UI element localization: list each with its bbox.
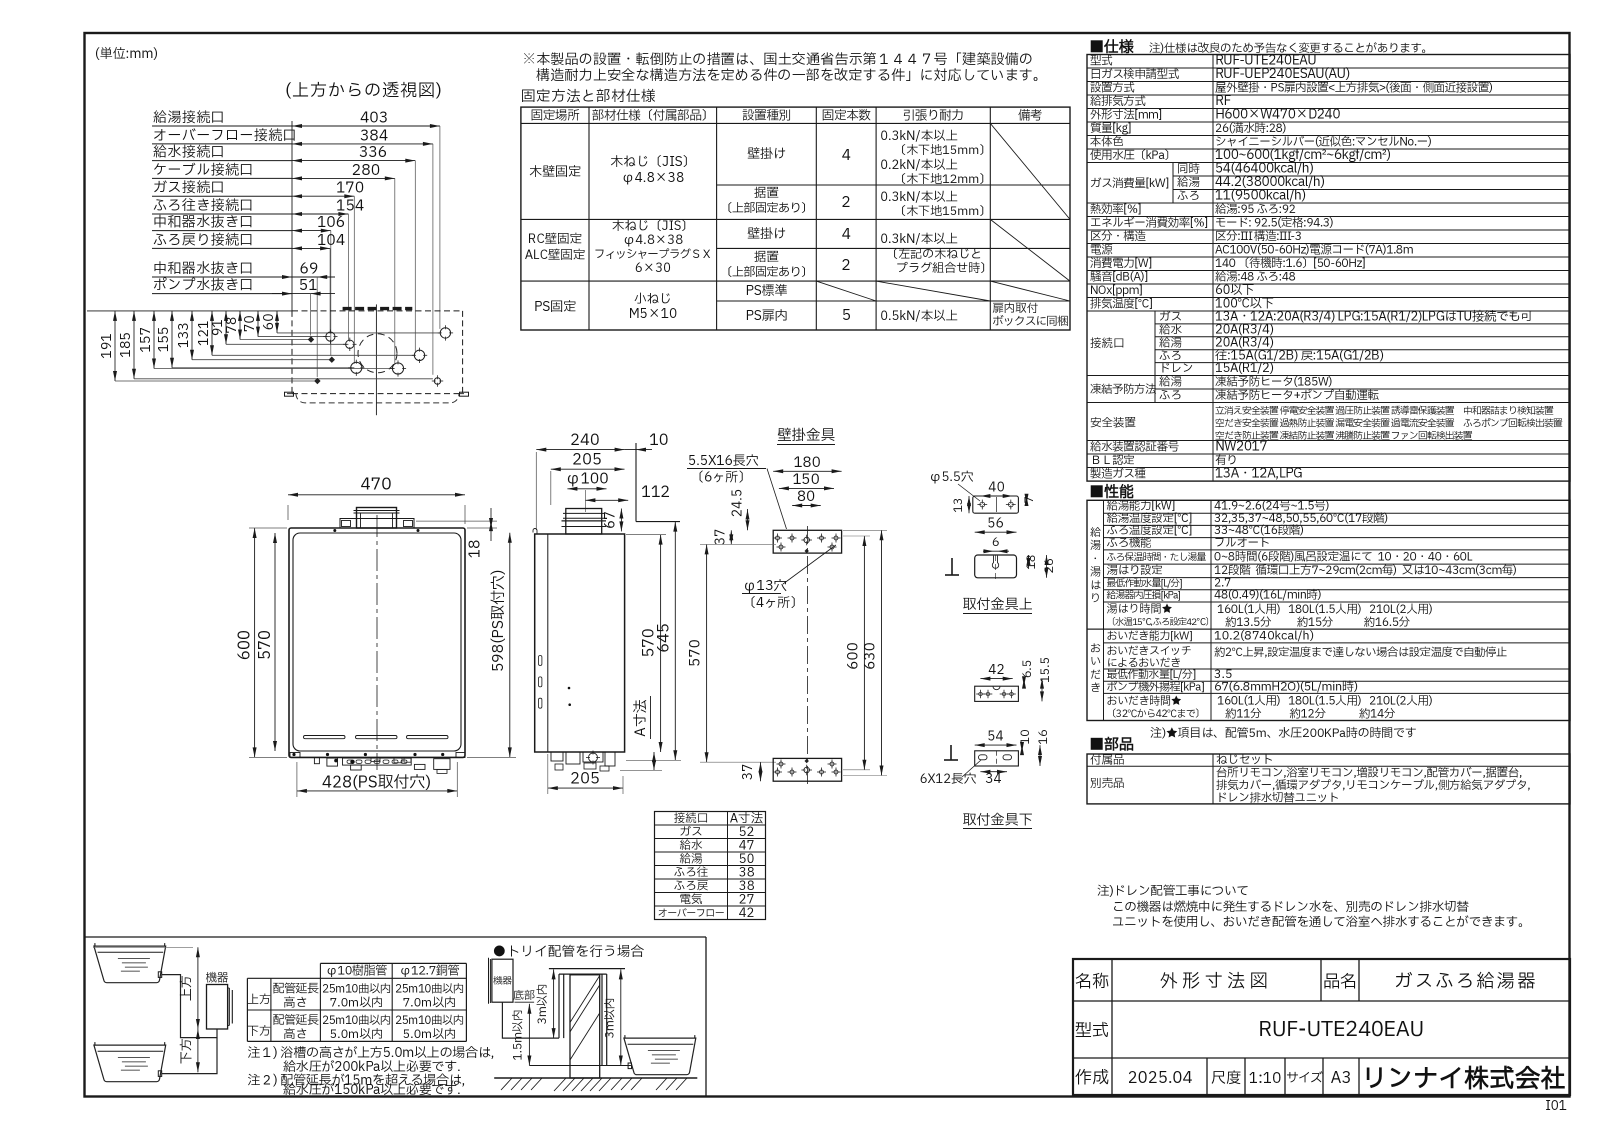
connection label ケーブル接続口 / dim 280 xyxy=(152,159,395,365)
svg-text:15.5: 15.5 xyxy=(1037,657,1055,683)
side view hanger hook xyxy=(533,529,537,535)
svg-text:PS固定: PS固定 xyxy=(534,297,576,317)
mini unit 機器 xyxy=(206,971,233,1030)
bracket 630 dim right xyxy=(843,530,887,775)
svg-text:〔上部固定あり〕: 〔上部固定あり〕 xyxy=(720,264,812,282)
svg-text:壁掛け: 壁掛け xyxy=(747,144,786,164)
svg-text:約11分 約12分: 約11分 約12分 約14分 xyxy=(1225,707,1396,724)
svg-text:37: 37 xyxy=(711,529,731,545)
performance table xyxy=(1087,499,1570,724)
svg-text:φ12.7銅管: φ12.7銅管 xyxy=(399,963,459,981)
front curved edge dashed outline xyxy=(287,394,467,403)
svg-text:112: 112 xyxy=(641,481,670,504)
dim 18 right of top bracket xyxy=(416,508,497,558)
connection label 中和器水抜き口 / dim 69 xyxy=(152,258,335,378)
bracket-lower plate1 xyxy=(975,686,1019,701)
svg-text:底部: 底部 xyxy=(513,987,535,1004)
bracket bottom 37 dim xyxy=(738,762,763,781)
bracket 80 dim xyxy=(792,487,821,508)
bracket-upper plate xyxy=(975,555,1017,580)
title block row1 xyxy=(1075,968,1538,995)
svg-text:取付金具上: 取付金具上 xyxy=(963,595,1033,616)
svg-text:設置種別: 設置種別 xyxy=(742,106,791,125)
toriy bathtub xyxy=(624,1035,696,1075)
bathtub upper xyxy=(94,943,166,983)
svg-text:A寸法: A寸法 xyxy=(631,699,652,736)
svg-text:サイズ: サイズ xyxy=(1286,1068,1323,1088)
svg-text:〔4ヶ所〕: 〔4ヶ所〕 xyxy=(743,593,803,613)
side view bottom 205 dim xyxy=(548,754,623,794)
svg-text:φ100: φ100 xyxy=(565,468,608,491)
side view 645 dim xyxy=(626,522,681,761)
connection label ふろ戻り接続口 / dim 104 xyxy=(152,229,345,333)
wall bracket thick dashed line xyxy=(343,307,413,310)
svg-text:〔木下地12mm〕: 〔木下地12mm〕 xyxy=(894,171,991,189)
ground line xyxy=(494,1077,697,1079)
svg-text:(単位:mm): (単位:mm) xyxy=(95,44,158,64)
svg-text:37: 37 xyxy=(738,764,758,780)
upper small plate 13 dim xyxy=(950,496,971,513)
side view flue xyxy=(566,509,602,535)
bottom fittings cluster xyxy=(290,753,465,774)
dim 598 PS mounting holes right xyxy=(467,533,516,758)
wall with hatching xyxy=(570,975,600,1078)
fixation table diagonal strikethroughs xyxy=(816,123,1070,301)
upper small plate 7 dim xyxy=(1021,494,1039,506)
svg-text:〔32℃から42℃まで〕: 〔32℃から42℃まで〕 xyxy=(1107,707,1205,722)
svg-text:155: 155 xyxy=(154,327,174,353)
fixation table grid xyxy=(521,107,1070,330)
phi13 hole label xyxy=(742,545,836,613)
svg-text:56: 56 xyxy=(987,514,1003,534)
svg-text:570: 570 xyxy=(686,639,707,666)
bracket-lower 15.5 dim xyxy=(1037,657,1055,701)
connection port symbols on top view xyxy=(326,332,335,341)
svg-text:品名: 品名 xyxy=(1323,970,1357,995)
parts table xyxy=(1087,752,1570,807)
svg-text:6X12長穴: 6X12長穴 xyxy=(920,770,977,789)
A-dimension table xyxy=(655,810,766,924)
vertical dim 133 with leader xyxy=(174,311,331,360)
vertical dim 155 with leader xyxy=(154,311,354,368)
svg-text:PS標準: PS標準 xyxy=(745,281,787,301)
svg-text:5.0m以内: 5.0m以内 xyxy=(403,1026,457,1044)
svg-text:133: 133 xyxy=(174,323,194,349)
svg-text:PS扉内: PS扉内 xyxy=(745,306,787,326)
svg-text:ALC壁固定: ALC壁固定 xyxy=(525,246,586,265)
svg-text:φ5.5穴: φ5.5穴 xyxy=(929,468,974,487)
svg-text:2: 2 xyxy=(841,191,850,214)
svg-text:(上方からの透視図): (上方からの透視図) xyxy=(285,79,443,104)
upper small plate 40 dim xyxy=(980,478,1012,499)
label phi5.5 hole xyxy=(929,468,980,501)
bracket top 37 dim xyxy=(711,529,734,545)
svg-text:16: 16 xyxy=(1035,729,1053,744)
svg-text:5.0m以内: 5.0m以内 xyxy=(330,1026,384,1044)
title block row3 xyxy=(1075,1058,1566,1098)
svg-text:80: 80 xyxy=(797,487,815,508)
svg-text:78: 78 xyxy=(222,317,242,334)
svg-text:湯はり時間★: 湯はり時間★ xyxy=(1107,601,1173,618)
svg-text:104: 104 xyxy=(317,229,345,252)
svg-text:φ10樹脂管: φ10樹脂管 xyxy=(326,963,388,981)
spec section title xyxy=(1089,36,1433,59)
svg-text:下方: 下方 xyxy=(247,1023,271,1041)
svg-text:下方: 下方 xyxy=(177,1038,197,1064)
svg-text:〔木下地15mm〕: 〔木下地15mm〕 xyxy=(894,203,991,221)
svg-text:645: 645 xyxy=(653,623,676,653)
svg-text:木壁固定: 木壁固定 xyxy=(529,162,581,182)
label 取付金具下 xyxy=(963,811,1033,832)
svg-text:上方: 上方 xyxy=(177,975,197,1001)
svg-text:付属品: 付属品 xyxy=(1090,752,1125,769)
center line vertical xyxy=(375,304,377,415)
svg-text:凍結予防方法: 凍結予防方法 xyxy=(1090,382,1157,399)
bracket-upper 6 dim xyxy=(983,534,1009,553)
svg-text:注)★項目は、配管5m、水圧200KPa時の時間です: 注)★項目は、配管5m、水圧200KPa時の時間です xyxy=(1150,725,1417,743)
vertical dim 60 with leader xyxy=(259,311,440,333)
svg-text:13A・12A,LPG: 13A・12A,LPG xyxy=(1215,464,1302,484)
svg-text:185: 185 xyxy=(116,332,136,358)
svg-text:1.5m以内: 1.5m以内 xyxy=(511,1009,528,1060)
svg-text:7.0m以内: 7.0m以内 xyxy=(330,995,384,1013)
vertical dim 78 with leader xyxy=(222,311,310,340)
fixation table header xyxy=(531,106,1043,125)
svg-text:ふろポンプ回転検出装置: ふろポンプ回転検出装置 xyxy=(1463,418,1563,432)
side view body xyxy=(535,534,625,752)
bracket 150 dim xyxy=(779,470,834,491)
bracket 570 dim left xyxy=(686,544,777,762)
fixation rows: RC/ALC wall xyxy=(525,217,992,282)
svg-text:ボックスに同梱: ボックスに同梱 xyxy=(992,314,1069,331)
side view 570 dim xyxy=(626,535,666,752)
svg-text:7.0m以内: 7.0m以内 xyxy=(403,995,457,1013)
svg-text:尺度: 尺度 xyxy=(1211,1067,1241,1090)
front view 470 dim xyxy=(288,474,465,525)
unit top-view dashed outline xyxy=(292,310,463,312)
svg-text:34: 34 xyxy=(985,769,1001,789)
svg-text:M5×10: M5×10 xyxy=(628,304,677,324)
svg-text:157: 157 xyxy=(136,327,156,353)
label 6X12 slotted hole xyxy=(920,760,981,789)
top reference line of vertical dims xyxy=(87,310,292,312)
connection label 給水接続口 / dim 336 xyxy=(152,141,415,351)
svg-text:10.2(8740kcal/h): 10.2(8740kcal/h) xyxy=(1214,628,1314,646)
svg-text:オーバーフロー: オーバーフロー xyxy=(658,907,725,922)
bracket-lower 10 dim xyxy=(1017,729,1035,755)
svg-text:10: 10 xyxy=(1017,729,1035,744)
vertical dim 70 with leader xyxy=(240,311,330,337)
dim 570 left inner xyxy=(254,533,278,751)
dim 1.5m以内 xyxy=(511,1004,532,1066)
vertical dim 121 with leader xyxy=(194,311,415,355)
svg-text:外形寸法図: 外形寸法図 xyxy=(1160,968,1273,995)
connection label ガス接続口 / dim 170 xyxy=(152,177,364,364)
toriy mini unit xyxy=(489,958,514,1004)
svg-text:固定場所: 固定場所 xyxy=(531,106,580,125)
svg-text:部材仕様〔付属部品〕: 部材仕様〔付属部品〕 xyxy=(592,106,714,125)
side view phi100 dim xyxy=(565,468,608,491)
svg-text:51: 51 xyxy=(299,274,318,297)
svg-text:プラグ組合せ時〕: プラグ組合せ時〕 xyxy=(896,260,992,278)
svg-text:470: 470 xyxy=(360,474,391,498)
bracket 24.5 dim xyxy=(728,489,750,530)
connection label 給湯接続口 / dim 403 xyxy=(152,107,440,329)
svg-text:約2℃上昇,設定温度まで達しない場合は設定温度で自動停止: 約2℃上昇,設定温度まで達しない場合は設定温度で自動停止 xyxy=(1214,644,1507,661)
bottom screw dots xyxy=(292,753,295,756)
svg-text:570: 570 xyxy=(254,630,278,660)
svg-text:RUF-UTE240EAU: RUF-UTE240EAU xyxy=(1258,1015,1424,1046)
front view body outline xyxy=(289,528,465,757)
svg-text:191: 191 xyxy=(97,333,117,359)
svg-text:き: き xyxy=(1090,680,1101,697)
ground hatching xyxy=(501,1078,687,1091)
svg-text:6: 6 xyxy=(992,534,1000,552)
svg-text:ふろ機能: ふろ機能 xyxy=(1107,535,1152,552)
title block xyxy=(1073,959,1570,1095)
svg-text:別売品: 別売品 xyxy=(1090,776,1125,793)
svg-text:A3: A3 xyxy=(1331,1067,1352,1091)
side view 112 dim xyxy=(585,481,670,512)
dim 3m以内 right xyxy=(603,969,623,1065)
bracket-lower 42 dim xyxy=(980,660,1012,681)
toriy pipe down from unit xyxy=(502,1002,559,1038)
svg-text:5: 5 xyxy=(841,304,850,327)
connection label オーバーフロー接続口 / dim 384 xyxy=(152,124,433,374)
bracket-lower 6.5 dim xyxy=(1019,660,1037,689)
svg-text:2: 2 xyxy=(841,254,850,277)
bracket-lower 54 dim xyxy=(975,727,1017,748)
connection label ふろ往き接続口 / dim 154 xyxy=(152,195,364,341)
svg-text:ガスふろ給湯器: ガスふろ給湯器 xyxy=(1394,968,1538,995)
svg-text:安全装置: 安全装置 xyxy=(1090,416,1136,433)
svg-text:24.5: 24.5 xyxy=(728,489,748,517)
top bracket plate xyxy=(340,519,414,529)
svg-text:φ4.8×38: φ4.8×38 xyxy=(622,168,684,188)
bracket top plate xyxy=(773,530,842,553)
svg-text:固定本数: 固定本数 xyxy=(822,106,872,125)
svg-text:〔上部固定あり〕: 〔上部固定あり〕 xyxy=(720,200,812,218)
bracket bottom plate xyxy=(773,758,842,781)
label 取付金具上 xyxy=(963,595,1033,616)
bracket center line xyxy=(806,526,808,785)
svg-text:205: 205 xyxy=(570,768,600,791)
fan dashed circle xyxy=(358,334,397,373)
exhaust duct top xyxy=(357,508,397,529)
bracket 180 dim xyxy=(773,453,841,474)
wall bracket title 壁掛金具 xyxy=(777,426,835,447)
dim 3m以内 left xyxy=(535,969,556,1038)
vertical dim 91 with leader xyxy=(208,311,348,344)
bathtub lower xyxy=(94,1042,166,1082)
front panel inner outline xyxy=(293,533,461,751)
vertical dim 157 with leader xyxy=(136,311,395,369)
svg-text:7: 7 xyxy=(1021,496,1039,504)
bracket-upper 56 dim xyxy=(975,514,1017,535)
svg-text:18: 18 xyxy=(1023,554,1041,569)
vertical dim 185 with leader xyxy=(116,311,433,379)
svg-text:70: 70 xyxy=(240,315,260,332)
svg-text:機器: 機器 xyxy=(493,975,513,989)
side mounting tabs xyxy=(285,392,294,396)
svg-text:18: 18 xyxy=(464,540,487,559)
svg-text:引張り耐力: 引張り耐力 xyxy=(903,106,964,125)
side view 67 dim xyxy=(601,509,624,532)
side view 10 dim xyxy=(625,429,669,452)
svg-text:0.5kN/本以上: 0.5kN/本以上 xyxy=(880,307,958,326)
svg-text:42: 42 xyxy=(739,904,755,923)
bracket-upper 26 dim xyxy=(1041,555,1059,578)
fixation rows: wood wall xyxy=(529,127,991,221)
bracket-lower 34 dim xyxy=(980,769,1007,789)
svg-text:54: 54 xyxy=(987,727,1003,747)
svg-text:4: 4 xyxy=(841,144,850,167)
svg-text:3m以内: 3m以内 xyxy=(535,984,552,1025)
svg-text:給水圧が150kPa以上必要です.: 給水圧が150kPa以上必要です. xyxy=(283,1080,461,1100)
title block row2 model xyxy=(1075,1015,1424,1046)
svg-text:6×30: 6×30 xyxy=(635,259,671,278)
upper small plate xyxy=(973,496,1019,513)
svg-text:26: 26 xyxy=(1041,558,1059,573)
svg-text:12段階 循環口上方7~29cm(2cm毎) 又は10~: 12段階 循環口上方7~29cm(2cm毎) 又は10~43cm(3cm毎) xyxy=(1214,563,1517,580)
svg-text:●トリイ配管を行う場合: ●トリイ配管を行う場合 xyxy=(493,942,645,962)
datum L mark lower xyxy=(950,745,952,760)
front view center line xyxy=(376,515,378,770)
piping length table xyxy=(247,963,466,1045)
svg-text:〔6ヶ所〕: 〔6ヶ所〕 xyxy=(691,468,751,488)
side view bottom fittings xyxy=(551,751,615,772)
svg-text:3m以内: 3m以内 xyxy=(603,998,620,1039)
svg-text:作成: 作成 xyxy=(1075,1066,1109,1091)
front face slots xyxy=(539,656,542,666)
svg-text:接続口: 接続口 xyxy=(1090,336,1125,353)
bracket-upper 18 dim xyxy=(1023,554,1041,569)
svg-text:高さ: 高さ xyxy=(284,995,308,1013)
vertical dim 191 with leader xyxy=(97,311,317,381)
dim 下方 xyxy=(177,1029,200,1072)
bracket-lower plate2 xyxy=(975,751,1019,766)
svg-text:リンナイ株式会社: リンナイ株式会社 xyxy=(1362,1060,1566,1098)
svg-text:6.5: 6.5 xyxy=(1019,660,1037,679)
svg-text:型式: 型式 xyxy=(1075,1019,1109,1044)
svg-text:ユニットを使用し、おいだき配管を通して浴室へ排水することがで: ユニットを使用し、おいだき配管を通して浴室へ排水することができます。 xyxy=(1112,913,1530,932)
connection label ポンプ水抜き口 / dim 51 xyxy=(152,274,335,335)
toriy over-wall pipe xyxy=(529,969,631,1066)
pipe from upper tub to unit xyxy=(162,975,217,1038)
svg-text:598(PS取付穴): 598(PS取付穴) xyxy=(487,570,510,673)
svg-text:名称: 名称 xyxy=(1075,970,1109,995)
dim 428 PS mounting holes bottom xyxy=(297,762,457,797)
svg-text:1:10: 1:10 xyxy=(1249,1067,1282,1090)
svg-text:10: 10 xyxy=(649,429,669,452)
side view 240 dim xyxy=(536,429,624,530)
svg-text:I01: I01 xyxy=(1545,1096,1567,1116)
svg-text:高さ: 高さ xyxy=(284,1026,308,1044)
dim 600 left xyxy=(234,528,288,757)
left extension line of dims xyxy=(291,121,293,311)
piping section box xyxy=(85,937,707,1097)
svg-text:ガス消費量[kW]: ガス消費量[kW] xyxy=(1090,176,1169,193)
side view 205 dim top xyxy=(551,449,625,506)
drain piping note xyxy=(1097,882,1530,932)
svg-text:固定方法と部材仕様: 固定方法と部材仕様 xyxy=(521,87,656,108)
label 底部 xyxy=(513,987,535,1004)
svg-text:42: 42 xyxy=(988,660,1004,680)
svg-text:り: り xyxy=(1090,590,1101,607)
svg-text:備考: 備考 xyxy=(1018,106,1042,125)
svg-text:630: 630 xyxy=(861,642,882,669)
bracket-lower 16 dim xyxy=(1035,729,1053,766)
spec table xyxy=(1087,50,1570,483)
svg-text:60: 60 xyxy=(259,313,279,330)
svg-text:構造耐力上安全な構造方法を定める件の一部を改定する件」に対応: 構造耐力上安全な構造方法を定める件の一部を改定する件」に対応しています。 xyxy=(536,66,1047,87)
svg-text:上方: 上方 xyxy=(247,992,271,1010)
svg-text:13: 13 xyxy=(950,497,968,512)
svg-text:2025.04: 2025.04 xyxy=(1127,1067,1192,1091)
PS wall line xyxy=(635,443,637,522)
svg-text:ドレン排水切替ユニット: ドレン排水切替ユニット xyxy=(1216,791,1339,808)
dim 上方 xyxy=(93,947,200,1029)
A dimension label xyxy=(620,696,662,770)
bracket 600 dim right xyxy=(844,536,867,770)
svg-text:40: 40 xyxy=(988,478,1004,498)
datum L mark upper xyxy=(951,558,953,575)
label 5.5X16 slotted hole xyxy=(687,451,787,529)
pipe from lower tub xyxy=(162,1038,217,1074)
svg-text:壁掛け: 壁掛け xyxy=(747,224,786,244)
connection label 中和器水抜き口 / dim 106 xyxy=(152,211,345,356)
fixation rows: PS xyxy=(534,281,1069,331)
svg-text:壁掛金具: 壁掛金具 xyxy=(777,426,835,447)
svg-text:4: 4 xyxy=(841,223,850,246)
svg-text:428(PS取付穴): 428(PS取付穴) xyxy=(322,772,431,796)
louver slots xyxy=(304,736,346,739)
